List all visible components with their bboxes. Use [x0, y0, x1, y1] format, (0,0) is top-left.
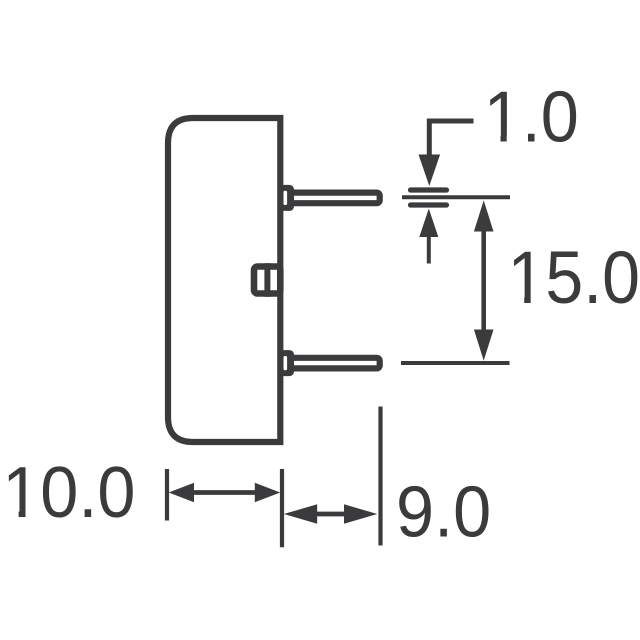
dimension 15.0 up arrowhead	[474, 200, 494, 231]
dimension 1.0 leader line	[429, 121, 473, 155]
dimension 10.0 left arrowhead	[169, 483, 194, 502]
dimension 9.0 left arrowhead	[284, 504, 317, 523]
bottom extension line (pin 2 level)	[401, 361, 510, 365]
left extension line (10.0)	[165, 469, 169, 521]
right extension line (9.0)	[378, 407, 382, 546]
dimension 15.0 vertical line	[481, 229, 486, 332]
mounting tab on body right wall	[254, 263, 280, 297]
dimension 10.0 right arrowhead	[255, 483, 280, 502]
dimension 1.0 lower extension dash	[411, 202, 447, 207]
dimension 15.0 down arrowhead	[474, 330, 494, 361]
top pin	[280, 185, 380, 211]
top extension line (pin 1 level)	[402, 195, 510, 199]
svg-text:9.0: 9.0	[396, 471, 491, 552]
middle extension line (body right edge)	[280, 469, 284, 547]
svg-text:1.0: 1.0	[484, 76, 579, 157]
dimension 1.0 down arrowhead	[419, 155, 441, 187]
component body	[168, 118, 280, 442]
dimension 9.0 arrow line	[310, 512, 352, 517]
dimension 9.0 right arrowhead	[344, 504, 377, 523]
dimension 1.0 up arrowhead with tail	[419, 209, 438, 238]
dimension 1.0 upper extension dash	[411, 187, 447, 192]
dimension 10.0 arrow line	[192, 490, 256, 495]
svg-text:10.0: 10.0	[2, 452, 135, 533]
svg-text:15.0: 15.0	[508, 237, 640, 319]
bottom pin	[280, 350, 380, 376]
